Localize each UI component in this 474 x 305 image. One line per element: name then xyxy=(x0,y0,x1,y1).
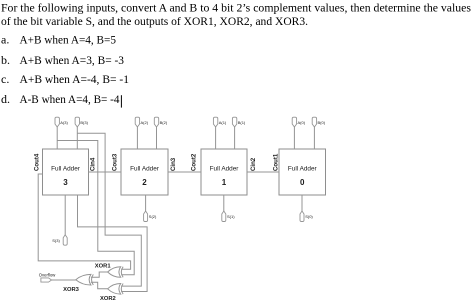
full adder FA0 xyxy=(279,149,326,195)
svg-text:of the bit variable S, and the: of the bit variable S, and the outputs o… xyxy=(1,14,308,28)
wire carry Cin4/Cout3 xyxy=(89,171,122,173)
svg-text:Cout2: Cout2 xyxy=(190,153,197,171)
svg-text:2: 2 xyxy=(142,178,147,187)
input connector B(0) xyxy=(312,117,326,127)
output connector S(3) xyxy=(52,235,67,245)
wire sum S(1) xyxy=(223,195,225,211)
svg-text:b.: b. xyxy=(1,53,10,67)
xor gate XOR3 xyxy=(63,274,93,293)
svg-text:A-B when A=4, B= -4: A-B when A=4, B= -4 xyxy=(20,92,120,106)
svg-text:Overflow: Overflow xyxy=(39,273,56,278)
wire A(1) to FA1 xyxy=(215,127,217,149)
text cursor xyxy=(120,95,122,107)
svg-text:S(3): S(3) xyxy=(52,238,60,243)
svg-text:S(0): S(0) xyxy=(305,214,313,219)
xor gate XOR2 xyxy=(100,284,123,303)
output connector S(1) xyxy=(222,211,235,222)
list item c xyxy=(1,72,129,86)
svg-text:Full Adder: Full Adder xyxy=(288,166,318,173)
svg-text:A+B when A=-4, B= -1: A+B when A=-4, B= -1 xyxy=(20,72,130,86)
svg-text:XOR3: XOR3 xyxy=(63,287,80,293)
wire B(3) to FA3 xyxy=(76,127,78,149)
list item d xyxy=(1,92,120,106)
xor gate XOR1 xyxy=(95,264,123,278)
svg-text:A+B when A=3, B= -3: A+B when A=3, B= -3 xyxy=(20,53,125,67)
svg-text:1: 1 xyxy=(222,178,227,187)
svg-text:Cout3: Cout3 xyxy=(112,153,119,171)
svg-text:Cout1: Cout1 xyxy=(272,153,279,171)
svg-text:XOR2: XOR2 xyxy=(100,296,116,302)
wire XOR3 output to Overflow xyxy=(52,279,76,281)
svg-text:B(2): B(2) xyxy=(160,120,168,125)
svg-text:d.: d. xyxy=(1,92,10,106)
svg-text:For the following inputs, conv: For the following inputs, convert A and … xyxy=(1,0,471,14)
svg-text:Full Adder: Full Adder xyxy=(130,166,160,173)
output connector S(2) xyxy=(144,211,157,222)
wire B(0) to FA0 xyxy=(313,127,315,149)
wire sum S(3) xyxy=(64,195,66,235)
wire sum S(2) xyxy=(145,195,147,211)
svg-text:A+B when A=4, B=5: A+B when A=4, B=5 xyxy=(20,33,117,47)
svg-text:A(0): A(0) xyxy=(298,120,306,125)
svg-text:Cin2: Cin2 xyxy=(250,157,257,171)
full adder FA3 xyxy=(43,149,89,195)
svg-text:Cout4: Cout4 xyxy=(33,153,40,171)
svg-text:Cin3: Cin3 xyxy=(170,157,177,171)
input connector B(1) xyxy=(232,117,246,127)
svg-text:B(3): B(3) xyxy=(80,120,88,125)
svg-text:B(0): B(0) xyxy=(318,120,326,125)
wire XOR2 output to XOR3 bottom input xyxy=(91,282,108,289)
svg-text:0: 0 xyxy=(300,178,305,187)
svg-text:a.: a. xyxy=(1,33,9,47)
input connector A(0) xyxy=(292,117,306,127)
svg-text:A(1): A(1) xyxy=(219,120,227,125)
svg-text:c.: c. xyxy=(1,72,9,86)
input connector A(3) xyxy=(55,117,69,127)
wire A(0) to FA0 xyxy=(293,127,295,149)
wire A(3) tap to XOR1 bottom input xyxy=(57,141,134,275)
wire A(2) to FA2 xyxy=(136,127,138,149)
list item a xyxy=(1,33,116,47)
full adder FA1 xyxy=(201,149,247,195)
svg-text:3: 3 xyxy=(63,178,68,187)
wire carry Cin2/Cout1 xyxy=(247,171,279,173)
wire B(2) to FA2 xyxy=(156,127,158,149)
wire B(3) tap to XOR2 top input xyxy=(77,133,141,286)
svg-text:XOR1: XOR1 xyxy=(95,264,112,270)
wire XOR1 output to XOR3 top input xyxy=(91,272,108,277)
question paragraph xyxy=(1,0,471,28)
wire sum S(0) xyxy=(301,195,303,211)
input connector A(2) xyxy=(135,117,149,127)
list item b xyxy=(1,53,124,67)
input connector A(1) xyxy=(213,117,227,127)
wire A(3) to FA3 xyxy=(56,127,58,149)
wire FA3 S tap to XOR2 bottom input xyxy=(78,195,148,292)
wire Cout4 to XOR1 top input xyxy=(38,174,130,269)
svg-text:S(2): S(2) xyxy=(149,214,157,219)
svg-text:Cin4: Cin4 xyxy=(89,157,96,171)
full adder FA2 xyxy=(121,149,168,195)
svg-text:Full Adder: Full Adder xyxy=(51,166,81,173)
svg-text:A(3): A(3) xyxy=(60,120,68,125)
input connector B(2) xyxy=(154,117,168,127)
wire carry Cin3/Cout2 xyxy=(168,171,201,173)
wire B(1) to FA1 xyxy=(234,127,236,149)
svg-text:B(1): B(1) xyxy=(238,120,246,125)
output connector S(0) xyxy=(300,211,313,222)
input connector B(3) xyxy=(75,117,89,127)
output connector Overflow xyxy=(39,273,56,283)
svg-text:A(2): A(2) xyxy=(141,120,149,125)
svg-text:S(1): S(1) xyxy=(227,214,235,219)
svg-text:Full Adder: Full Adder xyxy=(210,166,240,173)
